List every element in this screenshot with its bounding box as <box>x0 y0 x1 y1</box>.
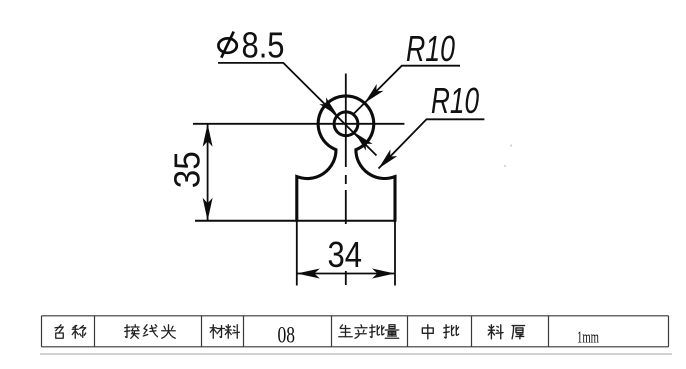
cell: 材料 <box>210 325 224 339</box>
leader R10 upper: shoulder + diagonal to knob circle <box>354 66 460 114</box>
arrow on hole lower-right (phi) <box>354 132 372 150</box>
svg-text:R10: R10 <box>431 80 479 121</box>
arrow R10 upper on circle <box>365 84 384 103</box>
cell: 中批 <box>422 325 433 339</box>
vertical centerline dashes below <box>345 175 347 285</box>
cell: 料厚 <box>488 325 503 339</box>
svg-text:34: 34 <box>328 234 363 275</box>
cell: 接线夹 <box>125 325 139 339</box>
hole circle (phi 8.5) <box>334 112 358 136</box>
arrow left (34) <box>297 269 320 279</box>
arrow on hole upper-left (phi) <box>319 97 337 115</box>
svg-text:1mm: 1mm <box>577 328 599 347</box>
arrow up (35) <box>203 124 213 147</box>
arrow down (35) <box>203 198 213 221</box>
speck 2 <box>504 165 506 167</box>
title table frame <box>42 316 669 347</box>
vertical centerline (solid part through circle) <box>345 74 347 168</box>
arrow right (34) <box>372 269 395 279</box>
arrow R10 lower on fillet <box>379 149 398 168</box>
cell: 名称 <box>55 325 63 339</box>
faint rule under table <box>40 353 672 355</box>
dimension 34: extension lines below part <box>296 221 298 286</box>
horizontal centerline through hole / top extension line for 35 dim <box>193 123 404 125</box>
svg-text:8.5: 8.5 <box>242 24 285 65</box>
part bottom edge + extension line to left for 35 dim <box>195 220 396 222</box>
part outline: wire clamp profile <box>297 96 395 221</box>
svg-text:R10: R10 <box>406 28 455 69</box>
svg-text:08: 08 <box>278 323 296 348</box>
leader phi8.5: shoulder + diagonal through hole <box>218 63 377 156</box>
leader R10 lower: shoulder + diagonal to fillet <box>379 119 485 168</box>
cell: 生产批量 <box>339 325 353 337</box>
svg-text:35: 35 <box>166 151 207 188</box>
dimension 34 line <box>297 273 395 275</box>
speck 1 <box>510 144 512 146</box>
dimension 35: vertical dimension line <box>207 124 209 221</box>
phi symbol <box>218 32 236 58</box>
